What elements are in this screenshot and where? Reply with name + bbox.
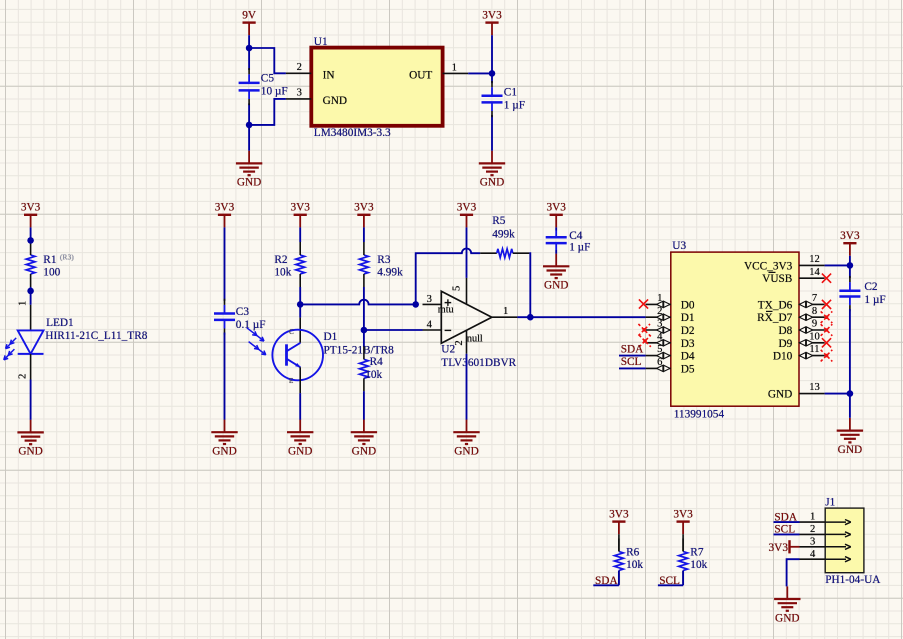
svg-text:10 µF: 10 µF — [261, 85, 288, 97]
svg-text:C1: C1 — [504, 86, 517, 98]
svg-text:3: 3 — [810, 536, 815, 547]
svg-text:10k: 10k — [690, 559, 707, 571]
svg-text:3V3: 3V3 — [609, 508, 629, 520]
svg-text:SDA: SDA — [774, 511, 797, 523]
svg-text:GND: GND — [288, 446, 312, 458]
svg-text:D5: D5 — [681, 363, 695, 375]
svg-text:OUT: OUT — [409, 70, 432, 82]
svg-text:2: 2 — [17, 374, 28, 379]
svg-text:9: 9 — [812, 319, 817, 330]
svg-text:D0: D0 — [681, 299, 695, 311]
svg-text:D1: D1 — [681, 312, 695, 324]
svg-text:TX_D6: TX_D6 — [758, 299, 793, 311]
svg-text:3V3: 3V3 — [457, 202, 477, 214]
svg-text:R7: R7 — [690, 546, 704, 558]
svg-text:C3: C3 — [236, 306, 250, 318]
svg-text:C4: C4 — [569, 230, 583, 242]
svg-text:3: 3 — [427, 294, 432, 305]
svg-text:3V3: 3V3 — [21, 202, 41, 214]
svg-text:2: 2 — [810, 524, 815, 535]
svg-text:D1: D1 — [324, 331, 338, 343]
svg-text:1: 1 — [810, 512, 815, 523]
svg-text:PT15-21B/TR8: PT15-21B/TR8 — [324, 345, 395, 357]
svg-text:499k: 499k — [492, 228, 515, 240]
svg-text:3V3: 3V3 — [482, 9, 502, 21]
svg-text:C2: C2 — [864, 281, 878, 293]
svg-text:R2: R2 — [274, 254, 288, 266]
svg-text:mtu: mtu — [438, 305, 454, 316]
svg-text:1: 1 — [503, 306, 508, 317]
svg-text:U1: U1 — [314, 36, 328, 48]
svg-text:GND: GND — [212, 446, 236, 458]
svg-text:LED1: LED1 — [46, 317, 74, 329]
svg-text:SCL: SCL — [774, 524, 795, 536]
svg-text:SCL: SCL — [659, 575, 680, 587]
svg-text:C5: C5 — [261, 73, 275, 85]
svg-text:1 µF: 1 µF — [569, 242, 590, 254]
svg-text:D9: D9 — [778, 338, 792, 350]
svg-text:C: C — [289, 328, 294, 336]
svg-text:10k: 10k — [365, 369, 382, 381]
svg-text:13: 13 — [809, 382, 820, 393]
svg-text:1: 1 — [452, 63, 457, 74]
svg-text:R5: R5 — [492, 215, 506, 227]
svg-text:10k: 10k — [274, 267, 291, 279]
svg-text:12: 12 — [809, 254, 820, 265]
svg-text:IN: IN — [323, 70, 335, 82]
svg-text:R4: R4 — [370, 356, 384, 368]
svg-text:LM3480IM3-3.3: LM3480IM3-3.3 — [314, 127, 391, 139]
svg-text:SDA: SDA — [595, 575, 618, 587]
svg-text:3V3: 3V3 — [290, 202, 310, 214]
svg-text:3V3: 3V3 — [546, 202, 566, 214]
svg-text:1 µF: 1 µF — [864, 294, 885, 306]
svg-text:3V3: 3V3 — [354, 202, 374, 214]
svg-text:GND: GND — [838, 444, 862, 456]
svg-text:3V3: 3V3 — [215, 202, 235, 214]
svg-text:D2: D2 — [681, 325, 695, 337]
svg-text:GND: GND — [237, 177, 261, 189]
svg-text:HIR11-21C_L11_TR8: HIR11-21C_L11_TR8 — [45, 330, 147, 342]
svg-text:4.99k: 4.99k — [377, 267, 403, 279]
svg-text:8: 8 — [812, 306, 817, 317]
svg-text:E: E — [289, 377, 294, 385]
svg-text:SDA: SDA — [621, 343, 644, 355]
svg-text:PH1-04-UA: PH1-04-UA — [825, 574, 881, 586]
svg-text:RX_D7: RX_D7 — [757, 312, 792, 324]
svg-text:GND: GND — [454, 446, 478, 458]
svg-text:0.1 µF: 0.1 µF — [236, 319, 266, 331]
svg-text:TLV3601DBVR: TLV3601DBVR — [441, 357, 516, 369]
svg-text:3: 3 — [297, 87, 302, 98]
svg-text:GND: GND — [323, 95, 347, 107]
svg-text:R6: R6 — [626, 546, 640, 558]
svg-text:GND: GND — [480, 177, 504, 189]
svg-text:D10: D10 — [773, 351, 793, 363]
svg-text:10: 10 — [809, 331, 820, 342]
svg-text:1: 1 — [17, 301, 28, 306]
svg-text:GND: GND — [18, 446, 42, 458]
svg-text:D3: D3 — [681, 338, 695, 350]
svg-text:2: 2 — [454, 340, 465, 345]
svg-text:U2: U2 — [441, 344, 455, 356]
svg-text:GND: GND — [768, 389, 792, 401]
svg-text:11: 11 — [809, 344, 819, 355]
svg-text:1 µF: 1 µF — [504, 100, 525, 112]
svg-text:3V3: 3V3 — [769, 542, 789, 554]
svg-text:4: 4 — [427, 319, 433, 330]
svg-text:D8: D8 — [778, 325, 792, 337]
svg-text:7: 7 — [812, 293, 817, 304]
svg-text:SCL: SCL — [621, 356, 642, 368]
svg-text:4: 4 — [810, 549, 816, 560]
svg-text:5: 5 — [452, 286, 463, 291]
svg-text:GND: GND — [544, 280, 568, 292]
svg-text:D4: D4 — [681, 351, 695, 363]
svg-text:3V3: 3V3 — [673, 508, 693, 520]
svg-text:R1: R1 — [43, 254, 56, 266]
svg-text:100: 100 — [43, 267, 60, 279]
svg-text:U3: U3 — [672, 240, 686, 252]
svg-text:J1: J1 — [825, 496, 835, 508]
svg-text:VUSB: VUSB — [762, 273, 792, 285]
svg-text:(R3): (R3) — [60, 253, 74, 262]
svg-text:GND: GND — [775, 612, 799, 624]
svg-text:R3: R3 — [377, 254, 391, 266]
svg-text:10k: 10k — [626, 559, 643, 571]
svg-text:VCC_3V3: VCC_3V3 — [744, 260, 793, 272]
svg-text:2: 2 — [297, 62, 302, 73]
svg-text:14: 14 — [809, 267, 820, 278]
svg-text:null: null — [467, 334, 483, 345]
svg-text:GND: GND — [352, 446, 376, 458]
svg-text:3V3: 3V3 — [840, 230, 860, 242]
svg-text:113991054: 113991054 — [674, 409, 725, 421]
svg-text:9V: 9V — [242, 9, 257, 21]
